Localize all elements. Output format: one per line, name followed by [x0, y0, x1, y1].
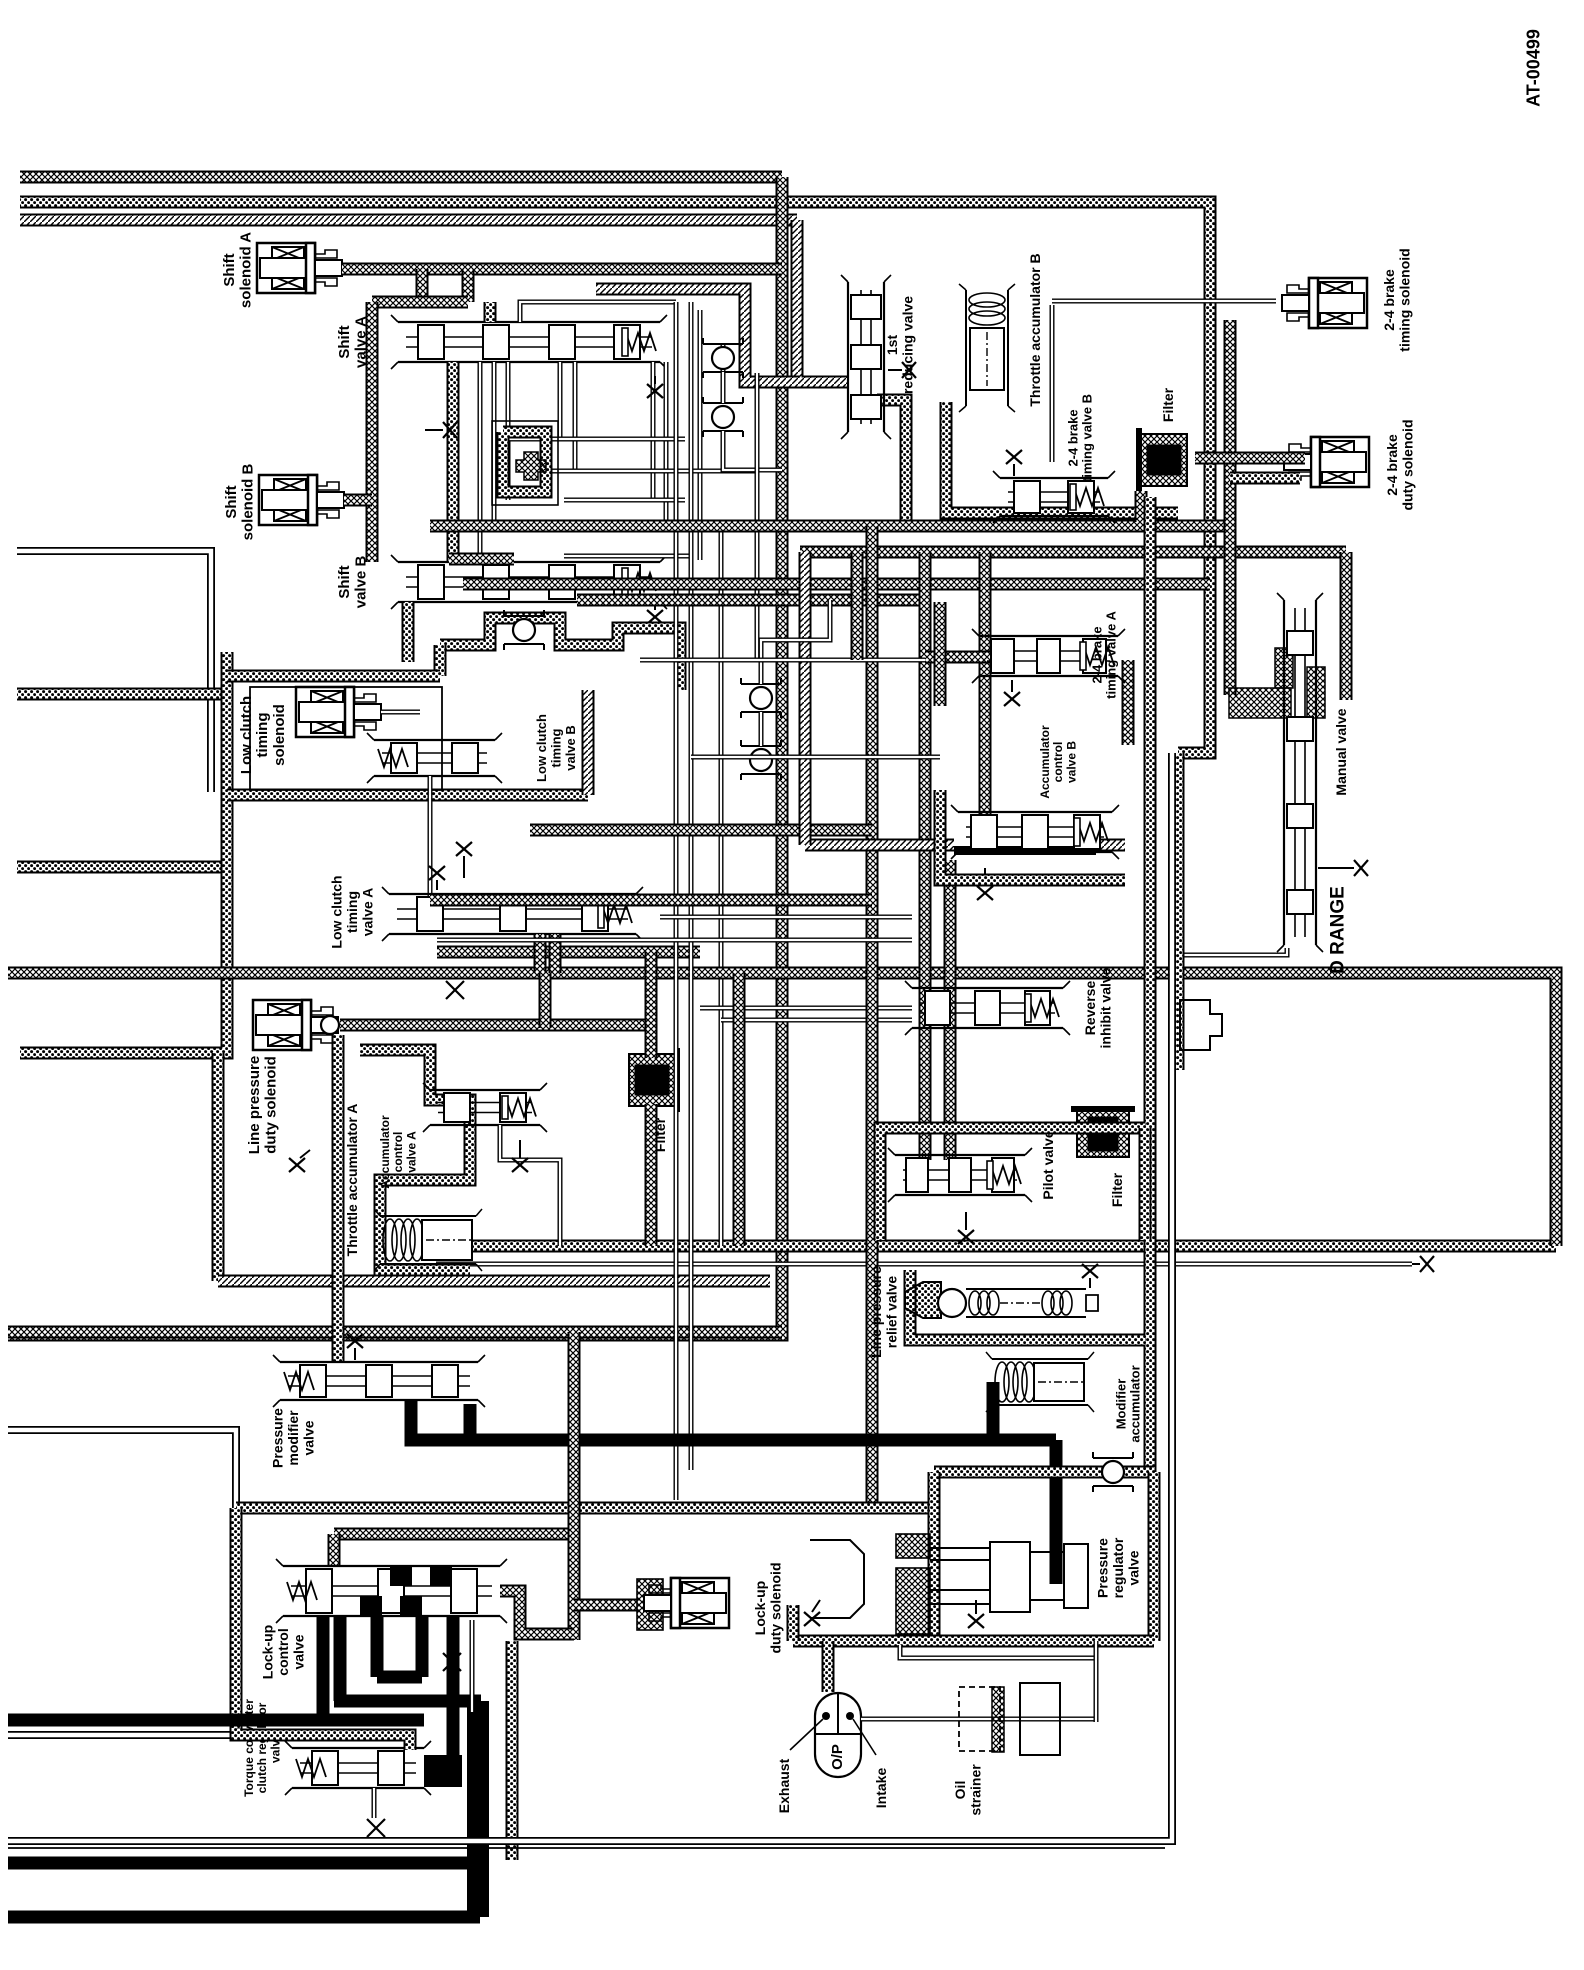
vent X manual valve — [1318, 860, 1368, 876]
label line pressure duty solenoid — [246, 1056, 280, 1154]
svg-text:regulator: regulator — [1110, 1537, 1126, 1598]
svg-text:D RANGE: D RANGE — [1328, 886, 1349, 974]
vent X pressure modifier — [347, 1334, 363, 1360]
wire black pressure modifier loop — [411, 1400, 470, 1440]
wire thin from 2-4 timing solenoid — [1050, 305, 1055, 462]
label shift solenoid B — [223, 463, 257, 540]
svg-text:Line pressure: Line pressure — [246, 1056, 263, 1154]
valve pressure-modifier — [273, 1355, 485, 1407]
valve lock-up-control — [276, 1559, 507, 1623]
wire thin mid y940 — [437, 938, 912, 943]
svg-text:relief valve: relief valve — [884, 1276, 900, 1349]
wire left dotted trunk lower x218 — [212, 1053, 225, 1281]
wire left dotted pipe y867 — [17, 861, 227, 874]
wire crosshatch pipe y1332 left segment — [8, 1326, 782, 1339]
wire y973 long crosshatch — [8, 973, 1556, 1246]
svg-text:timing valve B: timing valve B — [1080, 394, 1095, 482]
wire run y845 diag — [805, 839, 954, 852]
wire strainer rise — [1094, 1641, 1099, 1722]
check ball upper — [703, 338, 743, 378]
svg-text:AT-00499: AT-00499 — [1523, 29, 1543, 107]
wire crosshatch run y1281 long — [218, 1275, 770, 1288]
wire dotted left frame x236 — [230, 1508, 243, 1729]
svg-text:2-4 brake: 2-4 brake — [1381, 269, 1397, 331]
wire low-clutch dotted bottom y795 — [227, 789, 588, 802]
wire bottom frame inner — [8, 1847, 1165, 1849]
wire solenoid A branch v2 — [462, 269, 475, 302]
wire from shift solenoid B — [344, 494, 372, 507]
wire dotted left drop x793 — [787, 1605, 800, 1641]
svg-text:Throttle accumulator A: Throttle accumulator A — [344, 1104, 360, 1257]
label O/P — [829, 1744, 846, 1770]
svg-text:valve B: valve B — [1064, 741, 1078, 783]
wire top run 2 (dotted) to right turn-down — [20, 202, 1210, 753]
svg-text:timing solenoid: timing solenoid — [1397, 248, 1413, 351]
wire low clutch left wall stub — [402, 602, 415, 662]
label filter pilot — [1109, 1172, 1125, 1207]
svg-text:Shift: Shift — [336, 325, 353, 358]
valve 2-4-brake-timing-A — [972, 629, 1125, 683]
valve low-clutch-timing-B — [367, 733, 502, 783]
svg-text:Reverse: Reverse — [1082, 981, 1098, 1036]
svg-text:Oil: Oil — [952, 1781, 968, 1800]
svg-text:Intake: Intake — [873, 1768, 889, 1809]
svg-text:solenoid: solenoid — [271, 704, 288, 766]
wire black v2 — [334, 1616, 347, 1701]
wire to lock-up duty solenoid — [574, 1599, 640, 1612]
valve line-pressure-relief — [905, 1282, 1098, 1318]
valve accumulator-control-B — [951, 805, 1119, 859]
wire lct-A drop x540 — [534, 934, 547, 973]
vent X above lct-A 1 — [429, 866, 445, 890]
wire shift cluster step h3 — [564, 498, 685, 503]
label reverse inhibit valve — [1082, 967, 1113, 1048]
svg-text:reducing valve: reducing valve — [900, 296, 916, 394]
svg-text:Low clutch: Low clutch — [329, 875, 345, 948]
svg-text:Lock-up: Lock-up — [260, 1625, 276, 1679]
svg-text:Filter: Filter — [1109, 1172, 1125, 1207]
svg-text:Pressure: Pressure — [1095, 1538, 1111, 1598]
wire shift cluster thin v7 — [664, 362, 669, 530]
vent X regulator 1 — [804, 1600, 820, 1626]
wire top line-pressure run 1 (crosshatch) — [20, 171, 782, 184]
wire trunk x574 lockup — [568, 1332, 581, 1640]
wire hatch right of 2-4 valve A — [1122, 660, 1135, 745]
svg-text:Shift: Shift — [336, 565, 353, 598]
wire lockup valve to duty solenoid — [500, 1591, 574, 1634]
svg-text:Filter: Filter — [1160, 387, 1176, 422]
svg-text:modifier: modifier — [285, 1410, 301, 1466]
filter pilot — [1071, 1106, 1135, 1157]
svg-text:Throttle accumulator B: Throttle accumulator B — [1027, 253, 1043, 406]
wire center ball feed up — [761, 600, 830, 684]
label AT-00499 — [1523, 29, 1543, 107]
label shift solenoid A — [221, 232, 255, 308]
wire thin mid y757 — [691, 755, 940, 760]
wire shift cluster thin v3 — [506, 362, 511, 500]
wire v x857 — [851, 552, 864, 660]
label line pressure relief valve — [868, 1266, 899, 1358]
wire black right vertical — [467, 1701, 489, 1917]
vent X below y973 — [446, 981, 464, 999]
solenoid lock-up-duty — [644, 1578, 729, 1628]
label accumulator control valve B — [1038, 725, 1078, 799]
wire ball column upper — [721, 344, 726, 372]
label oil strainer — [952, 1764, 983, 1816]
leader exhaust — [790, 1719, 823, 1750]
wire dotted pump left — [822, 1641, 835, 1692]
label throttle accumulator A — [344, 1104, 360, 1257]
wire acc-A links — [500, 1125, 560, 1246]
wire shift cluster dotted v x453 — [447, 362, 460, 562]
vent X torque valve — [367, 1819, 385, 1837]
thin rect around cluster box — [492, 421, 558, 505]
svg-text:Manual valve: Manual valve — [1333, 708, 1349, 795]
wire x985 mid — [979, 552, 992, 830]
wire run y830 crosshatch — [530, 824, 872, 837]
valve pressure-regulator — [810, 1534, 1088, 1634]
vent X right y1264 — [1412, 1256, 1434, 1272]
wire throttle accumulator B enclosure — [946, 402, 1178, 513]
wire thin mid y917 — [660, 915, 912, 920]
svg-text:solenoid A: solenoid A — [238, 232, 255, 308]
wire shift cluster thin v2 — [492, 362, 497, 530]
svg-text:strainer: strainer — [968, 1764, 984, 1816]
wire below lct-A — [437, 946, 700, 959]
wire run y900 crosshatch — [430, 894, 872, 907]
wire trunk x1178 dotted — [1172, 753, 1185, 1070]
wire torque valve stem — [372, 1788, 377, 1818]
vent X acc control A — [512, 1140, 528, 1172]
solenoid 2-4-brake-timing — [1282, 278, 1367, 328]
wire thin to reverse inhibit 2 — [721, 1018, 912, 1023]
black bar under accumulator control valve B — [954, 846, 1096, 855]
wire solenoid A branch v1 — [416, 269, 429, 302]
wire thin to reverse inhibit 1 — [700, 1006, 912, 1011]
svg-text:timing: timing — [254, 713, 271, 758]
label throttle accumulator B — [1027, 253, 1043, 406]
wire trunk x925 crosshatch — [919, 552, 932, 1160]
vent X relief — [1082, 1264, 1098, 1288]
wire diag v x805 — [799, 552, 812, 845]
wire pilot enclosure top — [880, 1128, 1145, 1240]
svg-text:Low clutch: Low clutch — [534, 714, 549, 782]
valve low-clutch-timing-A — [382, 887, 643, 941]
label D RANGE — [1328, 886, 1349, 974]
wire acc-B enclosure — [940, 790, 1125, 880]
wire shift cluster upper thin loop — [520, 302, 676, 322]
svg-text:Pilot valve: Pilot valve — [1040, 1130, 1056, 1199]
wire shift cluster thin v1 — [478, 362, 483, 560]
vent X shift valve B right — [647, 602, 663, 624]
svg-text:solenoid B: solenoid B — [240, 463, 257, 540]
wire shift cluster upper loop diag — [596, 289, 800, 382]
wire black modifier link — [987, 1382, 1000, 1440]
wire black h y1720 long — [8, 1714, 424, 1727]
wire manual valve top feed — [1340, 552, 1353, 700]
wire lct-A drop x555 — [549, 934, 562, 973]
wire black feed to torque valve — [447, 1616, 460, 1760]
label filter 2-4-brake — [1160, 387, 1176, 422]
wire run y580 crosshatch — [463, 578, 1210, 591]
svg-text:2-4 brake: 2-4 brake — [1065, 409, 1080, 466]
svg-text:valve B: valve B — [353, 556, 370, 609]
check ball regulator top — [1093, 1452, 1133, 1492]
wire trunk x372 to shift valve B — [366, 302, 379, 562]
svg-text:timing valve A: timing valve A — [1104, 611, 1119, 699]
wire black h y1677 — [377, 1671, 422, 1684]
svg-text:Low clutch: Low clutch — [238, 696, 255, 774]
check ball lower — [703, 397, 743, 437]
wire shift cluster box — [503, 432, 546, 492]
check ball center lower — [741, 740, 781, 780]
svg-text:Line pressure: Line pressure — [868, 1266, 884, 1358]
vent X lock-up drain — [443, 1653, 461, 1671]
pad lock-up duty solenoid — [637, 1579, 663, 1630]
svg-text:valve A: valve A — [359, 888, 375, 937]
vent X 2-4 timing B — [1006, 450, 1022, 476]
component small elbow right of reverse inhibit — [1180, 1000, 1222, 1050]
label torque converter clutch regulator valve — [242, 1699, 282, 1797]
wire filter center feed — [645, 952, 658, 1058]
wire thin v x700 — [698, 310, 703, 560]
wire x950 lower — [944, 860, 957, 1160]
wire shift cluster thin v6 — [651, 362, 656, 500]
label manual valve — [1333, 708, 1349, 795]
svg-text:clutch regulator: clutch regulator — [255, 1702, 269, 1793]
wire bottom frame — [8, 753, 1172, 1841]
check ball low-clutch top — [504, 610, 544, 650]
label 1st reducing valve — [884, 296, 915, 394]
label 2-4 brake timing solenoid — [1381, 248, 1412, 351]
wire thin mid y660 — [640, 658, 940, 663]
port block manual valve fill 2 — [1275, 648, 1293, 688]
svg-text:2-4 brake: 2-4 brake — [1089, 626, 1104, 683]
svg-text:duty solenoid: duty solenoid — [263, 1056, 280, 1154]
wire plain trunk x676 — [674, 302, 679, 1500]
wire black long y1440 — [411, 1434, 1056, 1447]
svg-text:timing: timing — [549, 728, 564, 767]
check ball at line pressure duty nozzle — [321, 1016, 339, 1034]
wire black drop to regulator — [1050, 1440, 1063, 1584]
wire shift cluster step h5 — [564, 554, 693, 559]
label lock-up control valve — [260, 1625, 307, 1679]
svg-text:duty solenoid: duty solenoid — [1400, 420, 1416, 511]
wire plain line y1735 — [8, 1731, 233, 1739]
label lock-up duty solenoid — [752, 1563, 783, 1654]
label intake — [873, 1768, 889, 1809]
svg-text:valve: valve — [290, 1634, 306, 1669]
valve shift-A — [391, 315, 667, 369]
label accumulator control valve A — [378, 1115, 418, 1189]
wire accumulator control valve A enclosure — [360, 1050, 470, 1270]
svg-text:valve: valve — [1125, 1550, 1141, 1585]
vent X regulator 2 — [968, 1600, 984, 1628]
wire trunk x872 crosshatch — [866, 526, 879, 1508]
wire plain pipe y1264 long — [436, 1262, 1412, 1267]
wire line pressure duty out — [340, 1019, 651, 1032]
wire hatch left of 2-4 valve A — [934, 602, 947, 706]
wire dotted drop x512 — [506, 1641, 519, 1860]
label low clutch timing valve A — [329, 875, 376, 948]
wire ball feed — [723, 431, 782, 470]
vent X shift valve A right — [647, 376, 663, 398]
label 2-4 brake timing valve A — [1089, 611, 1118, 699]
svg-text:1st: 1st — [884, 335, 900, 356]
label exhaust — [776, 1758, 792, 1813]
wire black h y1701 — [334, 1695, 481, 1708]
black pad torque valve — [424, 1755, 462, 1787]
box around low clutch timing solenoid — [250, 687, 442, 790]
wire run y552 crosshatch — [800, 546, 1346, 559]
svg-text:Lock-up: Lock-up — [752, 1581, 768, 1635]
svg-text:Shift: Shift — [221, 253, 238, 286]
wire trunk x797 down from run3 to 1st reducing valve — [797, 220, 848, 382]
wire plain trunk x691 — [689, 302, 694, 1470]
wire lct-B right wall — [582, 690, 595, 795]
valve 2-4-brake-timing-B — [993, 471, 1115, 523]
svg-text:Modifier: Modifier — [1113, 1379, 1128, 1430]
check ball center upper — [741, 678, 781, 718]
label filter center — [652, 1117, 668, 1152]
wire run y600 crosshatch — [577, 594, 925, 607]
vent X pilot valve — [958, 1212, 974, 1244]
wire shift cluster thin v4 — [558, 362, 563, 439]
wire black h y1917 long — [8, 1911, 480, 1924]
solenoid shift-A — [257, 243, 342, 293]
wire 1st reducing valve drain dotted — [877, 400, 906, 526]
wire black h y1863 long — [8, 1857, 468, 1870]
solenoid 2-4-brake-duty — [1284, 437, 1369, 487]
wire dotted run y1246 long — [430, 1240, 1556, 1253]
wire from shift solenoid A — [342, 263, 782, 276]
wire left dotted pipe y1053 — [20, 1047, 218, 1060]
wire left dotted trunk x227 — [218, 652, 227, 1053]
valve accumulator-control-A — [423, 1083, 547, 1132]
valve shift-B — [391, 555, 667, 609]
wire shift cluster step h1 — [508, 437, 685, 442]
svg-text:timing: timing — [344, 891, 360, 933]
leader intake — [853, 1719, 876, 1755]
valve manual — [1277, 593, 1323, 952]
valve reverse-inhibit — [905, 981, 1070, 1035]
hatch blob in box — [516, 452, 546, 480]
svg-text:Accumulator: Accumulator — [378, 1115, 392, 1189]
svg-text:2-4 brake: 2-4 brake — [1384, 434, 1400, 496]
wire filter2 drop — [1135, 491, 1148, 522]
wire filter center out — [645, 1104, 658, 1246]
cap marks lock-up — [448, 1630, 456, 1650]
filter 2-4-brake — [1136, 428, 1187, 492]
svg-text:valve A: valve A — [404, 1131, 418, 1173]
wire thin drop x472 — [470, 1620, 475, 1712]
svg-text:Accumulator: Accumulator — [1038, 725, 1052, 799]
wire filter to duty solenoid — [1195, 452, 1305, 465]
wire low clutch timing valve B drop — [428, 776, 433, 900]
label pilot valve — [1040, 1130, 1056, 1199]
wire crosshatch y1534 — [334, 1528, 574, 1541]
wire trunk x1230 — [1224, 320, 1237, 695]
wire shift cluster step h2 — [541, 469, 757, 474]
accumulator throttle-A — [374, 1209, 482, 1271]
svg-text:Exhaust: Exhaust — [776, 1758, 792, 1813]
svg-text:inhibit valve: inhibit valve — [1098, 967, 1114, 1048]
svg-text:valve A: valve A — [353, 316, 370, 368]
wire dotted enclosure regulator top — [934, 1466, 1154, 1479]
wire run y845 diag right — [1096, 839, 1125, 852]
vent X 2-4 timing A — [1004, 680, 1020, 706]
wire thin v x757 — [755, 373, 760, 660]
vent X above lct-A 2 — [456, 842, 472, 878]
wire thin v x721 — [719, 522, 724, 1246]
svg-text:control: control — [275, 1628, 291, 1675]
svg-text:O/P: O/P — [829, 1744, 846, 1770]
solenoid line-pressure-duty — [253, 1000, 338, 1050]
wire trunk x782 down from run1, elbow left at y1335 — [8, 177, 782, 1335]
wire shift cluster step h4 — [493, 528, 584, 533]
wire dotted trunk x1150 — [1144, 497, 1157, 1472]
wire ball checks link — [721, 372, 726, 403]
wire black v3 — [371, 1616, 384, 1677]
wire relief enclosure — [910, 1270, 1145, 1340]
label low clutch timing valve B — [534, 714, 578, 782]
port block manual valve fill 3 — [1307, 667, 1325, 718]
vent X shift cluster left — [425, 422, 457, 438]
label modifier accumulator — [1113, 1365, 1142, 1442]
wire black v1 — [317, 1616, 330, 1720]
wire shift cluster thin v5 — [573, 362, 578, 471]
wire low clutch solenoid out — [381, 710, 420, 715]
wire dotted pump loop bottom — [793, 1635, 1154, 1648]
wire throttle accumulator A trunk — [332, 1035, 345, 1362]
filter center — [629, 1048, 680, 1112]
vent X line duty left — [289, 1150, 310, 1172]
wire solenoid A branch h — [372, 296, 468, 309]
valve 1st-reducing — [841, 275, 891, 439]
svg-text:Pressure: Pressure — [270, 1408, 286, 1468]
wire dotted enclosure y1508 — [236, 1502, 934, 1515]
wire pump suction — [861, 1717, 1096, 1722]
wire black v4 — [416, 1616, 429, 1677]
wire low-clutch dotted y676 — [227, 670, 440, 683]
label shift valve B — [336, 556, 370, 609]
svg-text:valve: valve — [300, 1420, 316, 1455]
valve pilot — [888, 1148, 1032, 1202]
valve torque-converter-clutch-regulator — [285, 1741, 431, 1795]
accumulator modifier — [986, 1352, 1094, 1412]
svg-text:Torque converter: Torque converter — [242, 1699, 256, 1797]
wire dotted y1735 under torque valve — [236, 1729, 410, 1750]
wire center balls link — [759, 712, 764, 746]
svg-text:Shift: Shift — [223, 485, 240, 518]
label 2-4 brake timing valve B — [1065, 394, 1094, 482]
wire low-clutch enclosure top — [440, 618, 680, 690]
wire thin y301 long — [1052, 299, 1276, 304]
label low clutch timing solenoid — [238, 696, 288, 774]
wire pilot enclosure right — [1139, 1128, 1152, 1240]
wire dotted enclosure regulator left — [928, 1472, 941, 1641]
wire regulator suction line — [900, 1645, 1096, 1658]
wire manual valve drain — [1182, 948, 1287, 1070]
label shift valve A — [336, 316, 370, 368]
wire black pressure modifier v2 — [464, 1404, 477, 1440]
svg-text:valve B: valve B — [563, 725, 578, 771]
svg-text:duty solenoid: duty solenoid — [768, 1563, 784, 1654]
oil strainer — [959, 1683, 1060, 1755]
wire low-clutch enclosure left — [434, 645, 447, 676]
label pressure modifier valve — [270, 1408, 317, 1468]
wire run y552 crosshatch stub — [449, 553, 514, 566]
